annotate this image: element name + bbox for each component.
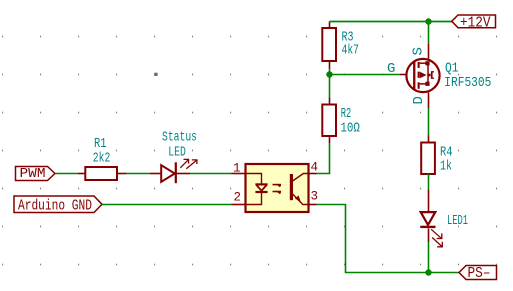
wire Q1 drain to R4 (428, 108, 430, 136)
node gate junction (326, 71, 332, 77)
wire gate junction to Q1 gate (330, 74, 401, 76)
transistor Q1 (400, 44, 440, 108)
svg-text:IRF5305: IRF5305 (444, 75, 491, 91)
resistor R2 (322, 98, 336, 144)
svg-text:+12V: +12V (460, 15, 491, 31)
svg-text:LED: LED (168, 144, 186, 160)
global label Arduino GND (14, 196, 102, 214)
wire opto pin 4 to R2 (317, 143, 330, 174)
resistor R4 (421, 136, 435, 175)
svg-text:G: G (387, 61, 395, 77)
svg-text:1k: 1k (440, 158, 452, 174)
svg-text:2: 2 (233, 190, 241, 204)
svg-text:PS–: PS– (468, 265, 491, 282)
svg-text:4k7: 4k7 (342, 43, 360, 59)
resistor R1 (78, 167, 127, 180)
svg-text:3: 3 (311, 189, 319, 203)
LED Status (150, 159, 197, 183)
optocoupler U1 (232, 164, 317, 212)
svg-text:1: 1 (233, 161, 241, 175)
wire R3 top to +12V rail (330, 21, 453, 23)
global label +12V (452, 15, 496, 31)
wire Status LED to opto pin 1 (190, 173, 232, 175)
wire R3 bottom to gate junction (329, 69, 331, 75)
wire R1 to Status LED (127, 173, 151, 175)
svg-text:4: 4 (311, 160, 319, 174)
svg-text:D: D (411, 96, 427, 104)
svg-text:Arduino GND: Arduino GND (18, 197, 92, 214)
wire R2 to gate node (329, 75, 331, 98)
node +12V junction (425, 18, 431, 24)
wire +12V junction to Q1 source (428, 22, 430, 44)
wire PWM to R1 (55, 173, 78, 175)
wire opto pin 3 to PS- rail (317, 205, 460, 273)
LED LED1 (421, 189, 443, 247)
global label PWM (16, 167, 56, 182)
svg-text:2k2: 2k2 (93, 151, 111, 167)
svg-text:PWM: PWM (20, 167, 46, 182)
resistor R3 (322, 22, 336, 69)
node PS- junction (425, 269, 431, 275)
wire Arduino GND to opto pin 2 (102, 204, 232, 206)
svg-text:Status: Status (162, 130, 197, 146)
wire R4 to LED1 (428, 174, 430, 189)
svg-text:S: S (411, 47, 427, 55)
wire LED1 to PS- rail (428, 242, 430, 273)
svg-text:10Ω: 10Ω (340, 120, 360, 136)
svg-text:LED1: LED1 (447, 213, 468, 229)
global label PS- (459, 265, 497, 282)
